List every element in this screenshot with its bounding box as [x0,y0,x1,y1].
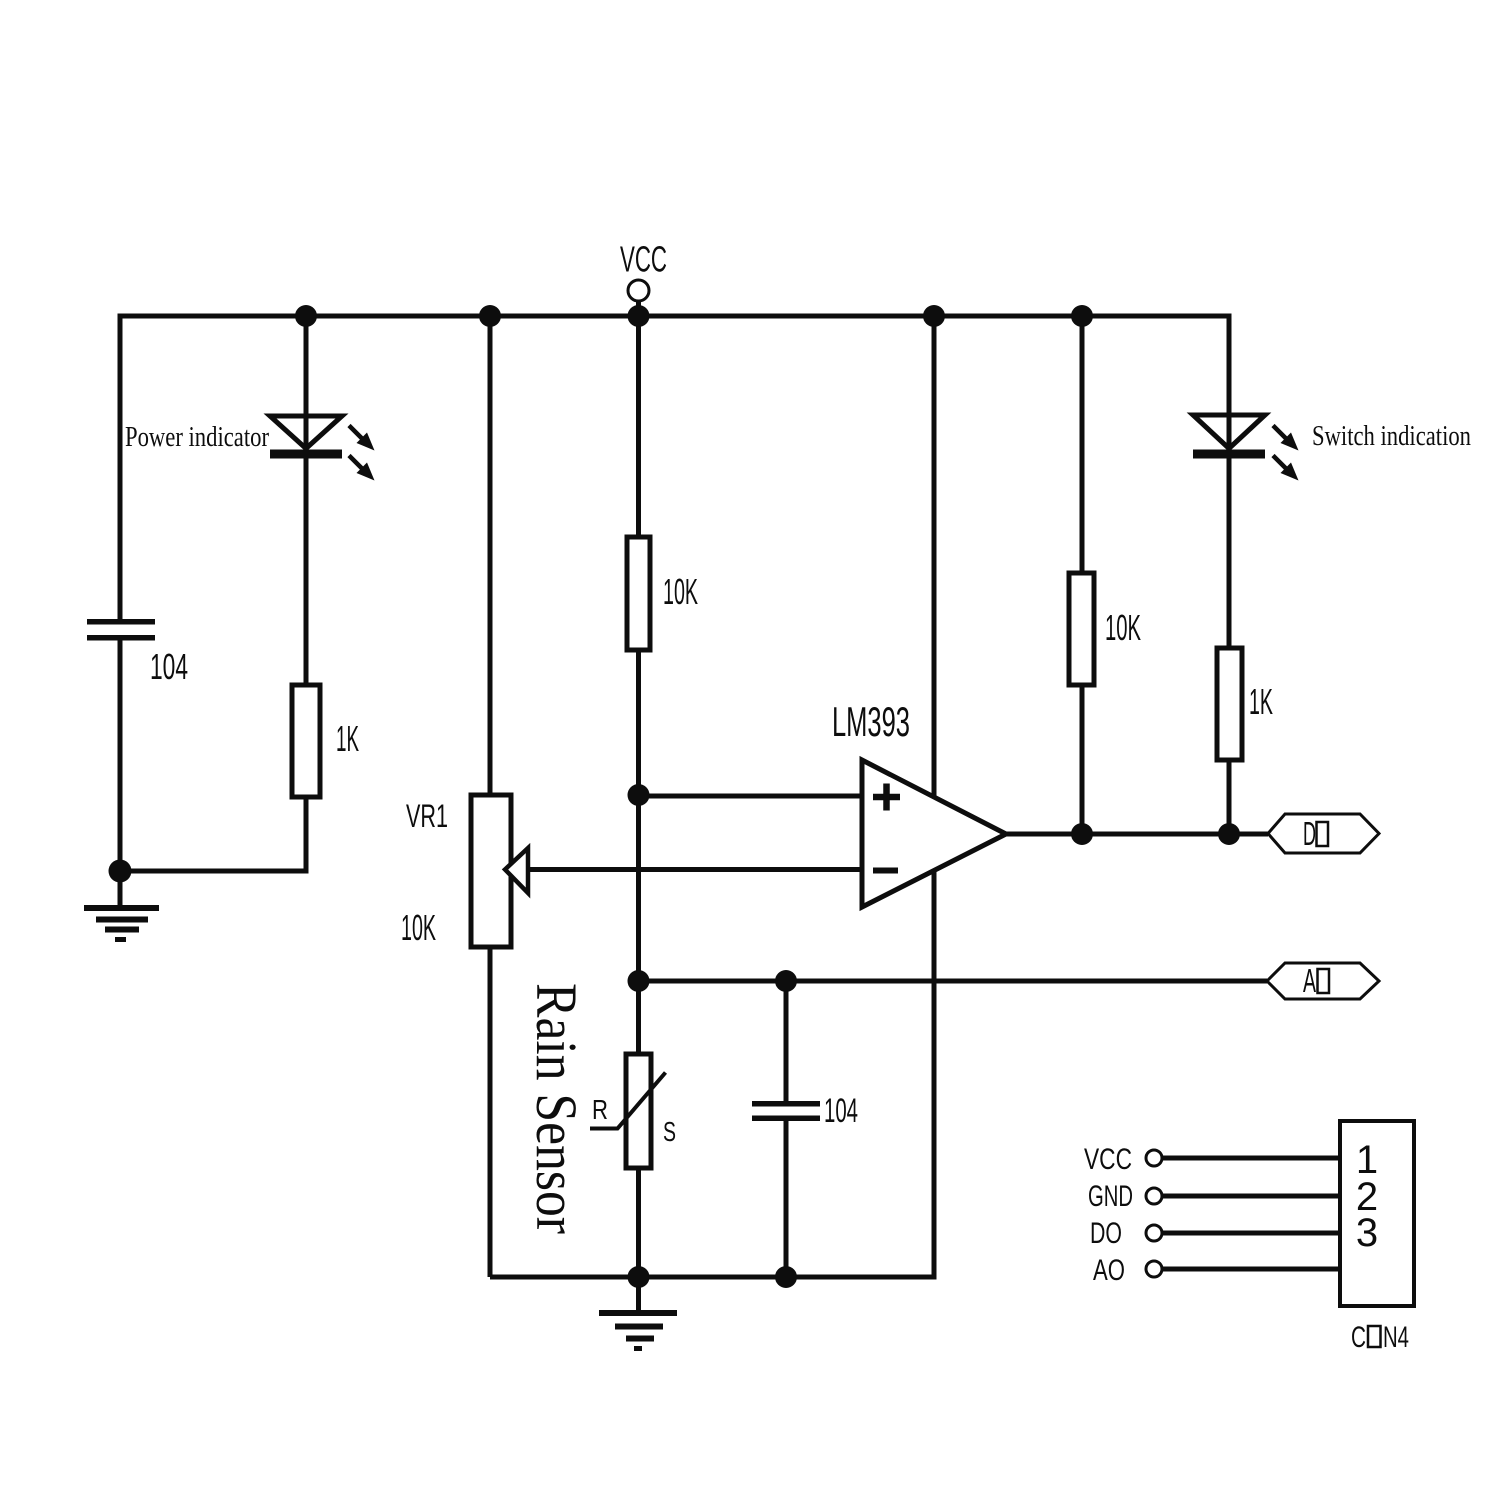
node DO 1K [1218,823,1240,845]
pin terminal VCC [1146,1150,1162,1166]
wire CON4 pin1 VCC [1162,1156,1340,1161]
svg-text:10K: 10K [663,571,698,612]
LED D1 power indicator [270,416,375,481]
node rail-VCC [628,305,650,327]
wire bottom rail and right riser x=934 [490,316,934,1277]
wire mid column rail to plus node [636,316,641,795]
wire cap2 top lead [784,981,789,1101]
capacitor C2 104 (middle) [752,1101,820,1121]
resistor R2 10K (middle) [627,537,650,650]
wire mid column sensor to ground [636,1166,641,1313]
node AO mid [628,970,650,992]
svg-text:N4: N4 [1383,1321,1409,1354]
wire cap2 bottom lead [784,1121,789,1277]
wire mid column plus node to sensor [636,795,641,1056]
wire wiper to op-amp minus input [505,867,862,872]
LED D2 switch indication [1193,415,1299,481]
wire ground stem left [118,871,123,908]
node plus input [628,784,650,806]
resistor R1 1K (left) [292,685,320,797]
node rail-LED1 [295,305,317,327]
svg-text:Power indicator: Power indicator [125,421,269,453]
node bottom cap2 [775,1266,797,1288]
potentiometer VR1 body [471,795,511,947]
wire VR1 column top rail to bottom rail [488,316,493,1277]
svg-text:VCC: VCC [1084,1143,1132,1176]
pin terminal DO [1146,1225,1162,1241]
ground symbol middle [599,1313,677,1349]
wire left column below capacitor to ground node and up to 1K [120,641,306,872]
node rail-riser [923,305,945,327]
wire CON4 pin2 GND [1162,1194,1340,1199]
svg-text:S: S [663,1116,676,1147]
op-amp U1 LM393 [862,760,1006,907]
node rail-VR1 [479,305,501,327]
resistor R3 10K (right) [1069,573,1094,685]
pin terminal AO [1146,1261,1162,1277]
node AO cap2 [775,970,797,992]
wire right 1K column bottom [1227,754,1232,834]
pin terminal GND [1146,1188,1162,1204]
wire AO line [639,979,1268,984]
wire top VCC rail with left and right drops [120,316,1229,648]
op-amp plus pin mark [873,784,900,811]
svg-text:AO: AO [1093,1254,1125,1287]
svg-text:R: R [592,1094,608,1125]
wire CON4 pin4 AO [1162,1267,1340,1272]
svg-text:D: D [1303,815,1316,852]
node left ground [109,860,132,883]
svg-text:VCC: VCC [620,239,667,280]
wire right 10K column top [1080,316,1085,578]
svg-text:VR1: VR1 [406,798,448,834]
svg-text:DO: DO [1090,1217,1122,1250]
node bottom mid ground [628,1266,650,1288]
wire right 10K column bottom [1080,680,1085,834]
potentiometer VR1 wiper arrow [505,848,528,893]
ground symbol left [84,908,159,940]
svg-text:1K: 1K [1249,681,1273,722]
node rail-10K right [1071,305,1093,327]
svg-text:A: A [1303,962,1316,999]
VCC terminal [628,280,649,301]
svg-text:1K: 1K [336,718,359,759]
svg-text:Switch indication: Switch indication [1312,420,1471,452]
wire op-amp output to DO [1006,832,1268,837]
wire op-amp plus input [639,794,863,799]
svg-text:C: C [1351,1321,1366,1354]
op-amp minus pin mark [873,868,898,874]
AO output flag [1267,963,1379,999]
rain sensor element RS [626,1054,651,1168]
wire mid column VCC stub [636,300,641,320]
node junction dots [109,305,1241,1288]
connector CON4 body [1340,1121,1414,1306]
svg-text:Rain Sensor: Rain Sensor [524,983,589,1234]
DO output flag [1268,814,1379,853]
node DO 10K [1071,823,1093,845]
svg-text:LM393: LM393 [832,698,910,745]
svg-text:104: 104 [824,1092,858,1130]
svg-text:104: 104 [150,646,188,687]
svg-text:GND: GND [1088,1180,1133,1213]
svg-text:10K: 10K [401,907,436,948]
capacitor C1 104 (left) [87,619,155,641]
svg-text:3: 3 [1356,1211,1378,1255]
wire LED1 column [304,316,309,690]
resistor R4 1K (right) [1217,648,1242,760]
svg-text:10K: 10K [1105,607,1141,648]
wire CON4 pin3 DO [1162,1231,1340,1236]
